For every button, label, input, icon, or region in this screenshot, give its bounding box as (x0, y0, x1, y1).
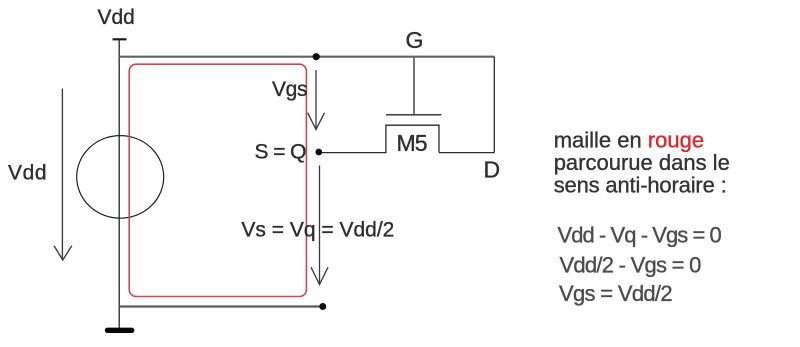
voltage source circle (77, 136, 164, 219)
svg-text:G: G (406, 27, 424, 53)
svg-text:maille en rouge: maille en rouge (554, 128, 704, 153)
node B (source node S=Q dot) (315, 149, 322, 156)
power symbol Vdd bar (113, 38, 127, 40)
transistor M5 gate wire (413, 58, 415, 115)
svg-text:Vgs = Vdd/2: Vgs = Vdd/2 (559, 281, 673, 306)
svg-text:Vdd/2 - Vgs = 0: Vdd/2 - Vgs = 0 (560, 252, 702, 277)
svg-text:sens anti-horaire :: sens anti-horaire : (554, 172, 727, 197)
svg-text:Vs = Vq = Vdd/2: Vs = Vq = Vdd/2 (241, 218, 394, 241)
Vgs annotation arrow (308, 70, 325, 130)
svg-text:Vdd: Vdd (98, 6, 135, 29)
svg-text:D: D (484, 157, 501, 183)
svg-text:Vdd - Vq - Vgs = 0: Vdd - Vq - Vgs = 0 (558, 222, 722, 247)
svg-text:Vgs: Vgs (272, 78, 308, 101)
svg-text:parcourue dans le: parcourue dans le (554, 150, 730, 175)
Vdd annotation arrow (left) (54, 89, 72, 261)
node C (bottom rail dot) (319, 303, 326, 310)
wire: bottom rail (119, 305, 323, 307)
ground (105, 328, 135, 333)
svg-text:M5: M5 (397, 130, 428, 156)
transistor M5 gate plate (386, 114, 442, 116)
transistor M5 channel (386, 125, 439, 153)
svg-text:S = Q: S = Q (255, 141, 307, 164)
wire: main vertical from Vdd bar to ground (118, 39, 120, 330)
node A (gate/top-rail junction dot) (313, 53, 320, 60)
Vs annotation arrow (311, 166, 328, 285)
wire: drain vertical (493, 57, 495, 153)
wire: top rail (119, 56, 494, 58)
red loop (maille) (129, 64, 306, 296)
wire: source lead (322, 152, 387, 154)
wire: drain lead (439, 152, 494, 154)
svg-text:Vdd: Vdd (8, 162, 47, 185)
